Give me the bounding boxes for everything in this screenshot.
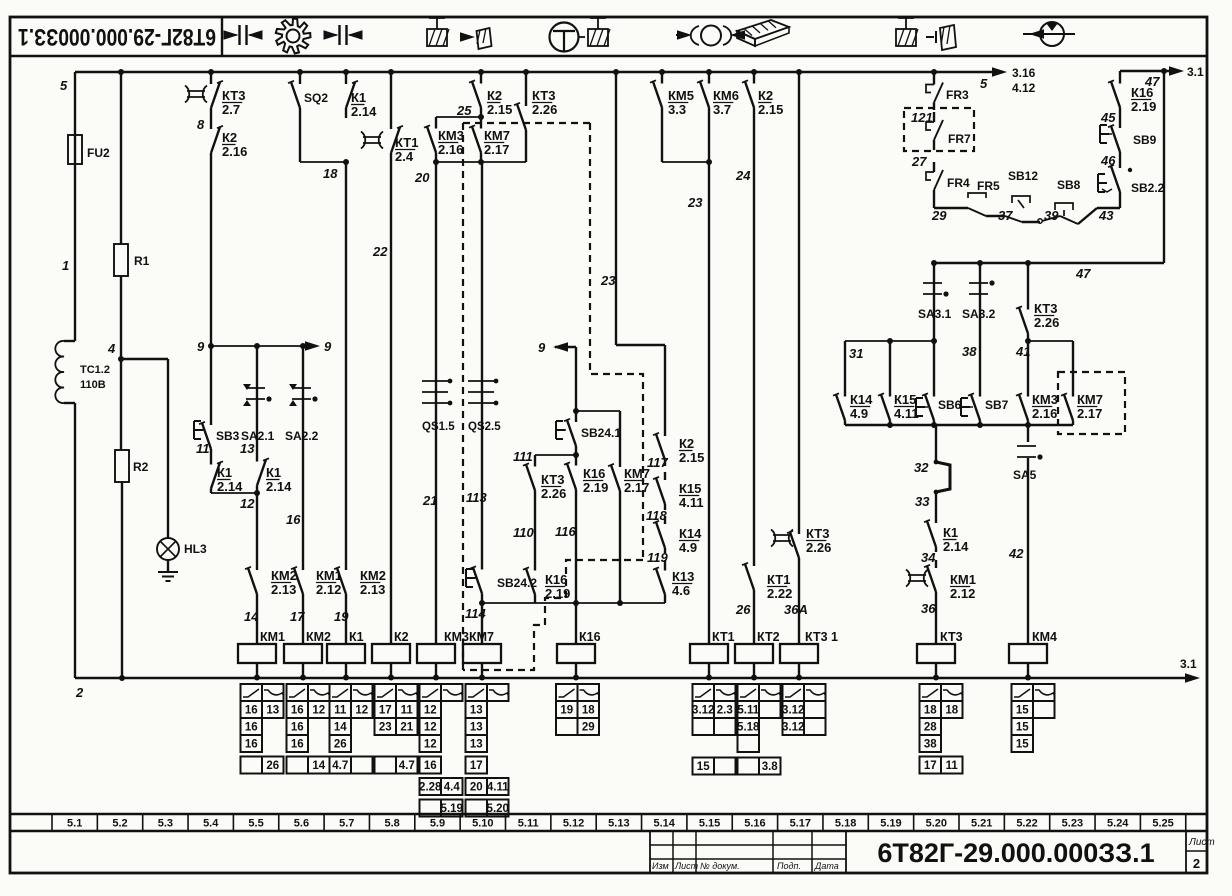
coil KM2: [284, 630, 331, 681]
wire 43 to SB2.2: [1097, 198, 1120, 208]
svg-text:КМ3: КМ3: [444, 630, 469, 644]
dashed link vertical left: [462, 123, 464, 670]
svg-text:SA5: SA5: [1013, 468, 1037, 482]
table under K16: [556, 684, 600, 735]
label KT3 2.26 (111): [541, 472, 566, 501]
svg-text:17: 17: [470, 760, 483, 772]
svg-text:2.17: 2.17: [1077, 406, 1102, 421]
contact KM1 2.12 (KM2 column): [291, 560, 303, 602]
wire K2 2.16 to node 9: [210, 162, 212, 346]
svg-text:21: 21: [400, 722, 413, 734]
svg-text:45: 45: [1100, 110, 1116, 125]
svg-text:Подп.: Подп.: [777, 861, 801, 871]
svg-text:КМ2: КМ2: [306, 630, 331, 644]
label K16 2.19 top: [1131, 85, 1156, 114]
contact KT3 2.26 (36A): [771, 524, 799, 566]
svg-text:3.3: 3.3: [668, 102, 686, 117]
contact K13 4.6: [653, 560, 665, 603]
svg-text:12: 12: [355, 705, 368, 717]
svg-text:16: 16: [291, 722, 304, 734]
svg-text:11: 11: [334, 705, 347, 717]
svg-text:КМ7: КМ7: [469, 630, 494, 644]
wire R1 column top: [118, 69, 124, 244]
svg-text:5.18: 5.18: [835, 818, 856, 830]
svg-text:2.16: 2.16: [222, 144, 247, 159]
svg-text:43: 43: [1098, 208, 1114, 223]
node 23 label a: [600, 273, 616, 288]
contact K1 2.14 (SA2.1 branch): [257, 452, 269, 493]
svg-text:5.16: 5.16: [744, 818, 765, 830]
svg-text:К1: К1: [351, 90, 366, 105]
title block list cell: [1186, 831, 1215, 873]
svg-text:46: 46: [1100, 153, 1116, 168]
svg-text:27: 27: [911, 154, 927, 169]
node 5 label left: [60, 78, 68, 93]
svg-text:11: 11: [196, 441, 210, 456]
disconnect QS2.5: [468, 370, 501, 433]
label K16 2.19 main: [583, 466, 608, 495]
contact K1 2.14 (33): [924, 516, 936, 552]
switch SA3.1: [918, 263, 952, 390]
svg-text:11: 11: [946, 760, 959, 772]
svg-text:18: 18: [323, 166, 338, 181]
label K2 2.15 chain: [679, 436, 704, 465]
node 2 label: [75, 685, 84, 700]
svg-text:SA3.2: SA3.2: [962, 307, 996, 321]
svg-text:КМ7: КМ7: [484, 128, 510, 143]
svg-text:25: 25: [456, 103, 472, 118]
contact KT1 2.4: [361, 118, 403, 162]
svg-text:16: 16: [286, 512, 301, 527]
label K14 4.9 (31): [850, 392, 873, 421]
pushbutton SB24.1: [556, 411, 621, 455]
svg-text:5.6: 5.6: [294, 818, 309, 830]
wire SQ2 top: [297, 69, 303, 75]
svg-text:3.16: 3.16: [1012, 66, 1036, 80]
svg-text:QS1.5: QS1.5: [422, 421, 455, 433]
svg-text:5.11: 5.11: [737, 705, 759, 717]
label KT3 2.26 (47): [1034, 301, 1059, 330]
svg-text:38: 38: [924, 739, 937, 751]
pushbutton SB6: [916, 390, 962, 425]
svg-text:КМ2: КМ2: [360, 568, 386, 583]
node 29 label: [931, 208, 947, 223]
node 119 label: [647, 550, 668, 565]
svg-text:8: 8: [197, 117, 205, 132]
label KM7 2.17 b: [624, 466, 650, 495]
svg-text:13: 13: [240, 441, 255, 456]
svg-text:24: 24: [735, 168, 751, 183]
label K16 2.19 (110): [545, 572, 570, 601]
svg-text:QS2.5: QS2.5: [468, 421, 501, 433]
svg-text:FR7: FR7: [948, 132, 971, 146]
coil K16: [557, 630, 601, 681]
node 16 label: [286, 512, 301, 527]
table under KM4: [1012, 684, 1056, 752]
svg-text:К16: К16: [583, 466, 605, 481]
svg-text:5.2: 5.2: [112, 818, 127, 830]
wire transformer to bottom bus: [74, 403, 76, 678]
svg-text:2.15: 2.15: [679, 450, 704, 465]
label K14 4.9: [679, 526, 702, 555]
node 32 label: [914, 460, 929, 475]
wire node18 down: [345, 162, 347, 560]
svg-text:КМ7: КМ7: [1077, 392, 1103, 407]
svg-text:114: 114: [465, 606, 486, 621]
svg-text:19: 19: [560, 705, 573, 717]
svg-text:2: 2: [1193, 856, 1200, 871]
arrow 3.1 bottom: [1180, 657, 1200, 683]
svg-text:12: 12: [312, 705, 325, 717]
wire node12 down: [256, 493, 258, 560]
svg-text:15: 15: [1016, 705, 1029, 717]
node 47 label: [1075, 266, 1091, 281]
svg-text:12: 12: [424, 739, 437, 751]
svg-text:116: 116: [555, 524, 576, 539]
node 121 label: [911, 110, 933, 125]
svg-text:2.3: 2.3: [717, 705, 733, 717]
label KT1 2.4: [395, 135, 418, 164]
table under KM2: [287, 684, 331, 774]
coil KM1: [238, 630, 285, 681]
wire to KM7 coil: [481, 603, 483, 630]
svg-text:Лист: Лист: [1188, 837, 1215, 848]
svg-text:5.24: 5.24: [1107, 818, 1129, 830]
svg-text:2.7: 2.7: [222, 102, 240, 117]
table under K1: [330, 684, 374, 774]
node 111: [513, 449, 579, 464]
svg-text:К1: К1: [349, 630, 364, 644]
icon: workpiece block: [737, 20, 789, 46]
resistor R2: [115, 450, 149, 482]
contact FR5: [968, 179, 1005, 216]
wire top bus right segment: [1120, 68, 1180, 74]
svg-text:36: 36: [921, 601, 936, 616]
label KM6 3.7: [713, 88, 739, 117]
contact K1 2.14 (SB3 branch): [211, 458, 223, 493]
switch SA5: [1013, 446, 1043, 482]
contact K2 2.15 top: [469, 69, 484, 117]
node 42 label: [1008, 546, 1024, 561]
node 12: [240, 490, 260, 511]
svg-text:12: 12: [240, 496, 255, 511]
svg-text:К14: К14: [679, 526, 702, 541]
label KT3 2.26 top: [532, 88, 557, 117]
svg-text:КТ3: КТ3: [532, 88, 555, 103]
svg-text:К15: К15: [894, 392, 916, 407]
node 3.1 label bottom: [0, 0, 1, 1]
arrow node 9 right: [305, 339, 332, 354]
svg-text:5.25: 5.25: [1152, 818, 1173, 830]
svg-text:SB9: SB9: [1133, 133, 1157, 147]
node 9 label left: [197, 339, 205, 354]
svg-text:113: 113: [466, 490, 487, 505]
label K1 2.14 a: [217, 465, 243, 494]
thermal contact FR3: [926, 77, 969, 110]
icon: indexing symbol: [1023, 22, 1075, 46]
svg-text:5.10: 5.10: [472, 818, 493, 830]
wire to KM2 coil: [302, 602, 304, 630]
wire 24 down: [753, 117, 755, 556]
wire FR bottom path: [934, 200, 968, 208]
wire node 47 vertical: [1163, 71, 1165, 263]
wire SQ2 bottom: [300, 118, 346, 162]
node 118 label: [646, 508, 667, 523]
svg-text:КТ1: КТ1: [767, 572, 790, 587]
node KM6 junction: [706, 159, 712, 165]
contact K15 4.11 chain: [653, 472, 665, 510]
svg-text:3.7: 3.7: [713, 102, 731, 117]
label KM3 2.16 top: [438, 128, 464, 157]
jumper 32-33: [934, 460, 950, 495]
wire KM7 column: [481, 162, 483, 370]
svg-text:36А: 36А: [784, 602, 808, 617]
contact KM3 2.16 (41): [1016, 341, 1028, 425]
svg-text:17: 17: [379, 705, 392, 717]
contact K2 2.15 chain: [653, 428, 665, 466]
contact KT3 2.26 (111): [523, 455, 535, 500]
contact KM7 2.17 (K16 col): [608, 411, 620, 498]
switch SA2.2: [285, 346, 319, 560]
svg-text:2.16: 2.16: [1032, 406, 1057, 421]
label K15 4.11 (31): [894, 392, 919, 421]
contact K2 2.16: [211, 118, 223, 162]
svg-text:3.12: 3.12: [782, 705, 804, 717]
node 17 label: [290, 609, 305, 624]
dashed link KM3-KM7 top: [463, 122, 590, 124]
wire to KT3 coil: [935, 598, 937, 630]
contact K16 2.19 main: [564, 455, 576, 498]
svg-text:К1: К1: [217, 465, 232, 480]
svg-text:15: 15: [1016, 739, 1029, 751]
svg-text:16: 16: [291, 739, 304, 751]
svg-text:2.15: 2.15: [487, 102, 512, 117]
node 46 label: [1100, 153, 1116, 168]
coil KM4: [1009, 630, 1057, 681]
svg-text:47: 47: [1144, 74, 1160, 89]
wire to KT2 coil: [753, 598, 755, 630]
pushbutton SB8: [1042, 178, 1097, 224]
svg-text:23: 23: [379, 722, 392, 734]
svg-text:4.11: 4.11: [487, 782, 509, 794]
svg-text:5.1: 5.1: [67, 818, 82, 830]
svg-text:117: 117: [647, 455, 668, 470]
svg-text:5.4: 5.4: [203, 818, 219, 830]
svg-text:FU2: FU2: [87, 146, 110, 160]
svg-text:11: 11: [401, 705, 414, 717]
node 25 rail: [436, 114, 484, 120]
rail 31 bottom: [845, 422, 1073, 428]
coil KM7: [463, 630, 501, 681]
table under KT3: [920, 684, 964, 774]
wire 42: [1027, 458, 1029, 630]
node 34 label: [921, 550, 936, 565]
svg-text:16: 16: [245, 722, 258, 734]
node 39 label: [1044, 208, 1059, 223]
svg-text:22: 22: [372, 244, 388, 259]
svg-text:5.7: 5.7: [339, 818, 354, 830]
label K1 2.14 (33): [943, 525, 969, 554]
wire HL3 to ground: [167, 560, 169, 572]
svg-text:2.13: 2.13: [271, 582, 296, 597]
transformer winding TC1.2: [55, 341, 75, 403]
node 36A label: [784, 602, 808, 617]
svg-text:9: 9: [324, 339, 332, 354]
svg-text:К2: К2: [758, 88, 773, 103]
node SB24.1 top: [573, 408, 620, 414]
svg-text:38: 38: [962, 344, 977, 359]
svg-text:SB24.1: SB24.1: [581, 426, 621, 440]
svg-text:4.6: 4.6: [672, 583, 690, 598]
node 47 rail: [931, 260, 1164, 266]
svg-text:К2: К2: [679, 436, 694, 451]
node 31 label: [849, 346, 863, 361]
label KT3 2.26 (36A): [806, 526, 831, 555]
label KM2 2.13 a: [271, 568, 297, 597]
svg-text:R1: R1: [134, 254, 150, 268]
wire node 4 to HL3: [121, 359, 168, 538]
dashed box FR7: [904, 108, 974, 151]
svg-text:SB3: SB3: [216, 429, 240, 443]
svg-text:КТ2: КТ2: [757, 630, 780, 644]
svg-text:1: 1: [62, 258, 69, 273]
svg-text:КМ6: КМ6: [713, 88, 739, 103]
label K2 2.15 top: [487, 88, 512, 117]
wire to KT3.1 coil: [798, 566, 800, 630]
label KT3 2.7: [222, 88, 245, 117]
wire KT3.1 column top: [796, 69, 802, 524]
wire node 22 down: [390, 162, 392, 630]
node 47 label top: [1144, 74, 1160, 89]
svg-text:SB6: SB6: [938, 398, 962, 412]
svg-text:5: 5: [60, 78, 68, 93]
wire chain from bus: [613, 69, 665, 428]
node 110 label: [513, 525, 534, 540]
svg-text:К14: К14: [850, 392, 873, 407]
label KT1 2.22: [767, 572, 792, 601]
svg-text:5.19: 5.19: [880, 818, 901, 830]
label K15 4.11: [679, 481, 704, 510]
svg-text:КМ4: КМ4: [1032, 630, 1057, 644]
svg-text:17: 17: [924, 760, 937, 772]
icon: arrow to hatched pad 1: [460, 28, 492, 49]
fuse FU2: [68, 135, 110, 164]
label KM1 2.12 a: [316, 568, 342, 597]
svg-text:К16: К16: [579, 630, 601, 644]
table under KT1: [692, 684, 736, 735]
label KM2 2.13 b: [360, 568, 386, 597]
svg-text:2.26: 2.26: [541, 486, 566, 501]
node 38 label: [962, 344, 977, 359]
svg-text:9: 9: [197, 339, 205, 354]
svg-text:31: 31: [849, 346, 863, 361]
svg-text:4.9: 4.9: [850, 406, 868, 421]
dashed link to K16 contact: [463, 560, 643, 670]
node 14 label: [244, 609, 259, 624]
svg-text:5.14: 5.14: [654, 818, 676, 830]
node 26 label: [735, 602, 751, 617]
svg-text:SB12: SB12: [1008, 169, 1038, 183]
contact KM7 2.17 (41): [1061, 341, 1073, 425]
svg-text:18: 18: [924, 705, 937, 717]
node 20 rail: [433, 159, 526, 165]
node 114: [465, 600, 486, 621]
svg-text:5.22: 5.22: [1016, 818, 1037, 830]
svg-text:16: 16: [291, 705, 304, 717]
node 45 label: [1100, 110, 1116, 125]
svg-text:5.15: 5.15: [699, 818, 720, 830]
table under KM3: [419, 684, 463, 817]
svg-text:SA3.1: SA3.1: [918, 307, 952, 321]
pushbutton SB9: [1100, 118, 1157, 160]
svg-text:2.15: 2.15: [758, 102, 783, 117]
svg-text:33: 33: [915, 494, 930, 509]
svg-text:29: 29: [582, 722, 595, 734]
label K2 2.15 (24): [758, 88, 783, 117]
svg-text:2.14: 2.14: [351, 104, 377, 119]
pushbutton SB7: [961, 390, 1009, 425]
node 8 label: [197, 117, 205, 132]
svg-text:13: 13: [470, 739, 483, 751]
icon: grinding wheel with holder 2: [588, 18, 610, 46]
wire R2 to bottom bus: [119, 482, 125, 681]
coil KT2: [735, 630, 780, 681]
svg-text:2.12: 2.12: [316, 582, 341, 597]
svg-text:К16: К16: [545, 572, 567, 587]
contact KT1 2.22: [742, 556, 754, 598]
wire bottom bus: [75, 677, 1196, 680]
switch SA2.1: [241, 346, 275, 452]
icon: gap symbol 2: [324, 25, 363, 45]
coil KT1: [690, 630, 735, 681]
wire QS2.5 down: [481, 415, 483, 558]
svg-text:6Т82Г-29.000.000ЗЗ.1: 6Т82Г-29.000.000ЗЗ.1: [877, 838, 1154, 868]
svg-text:2.12: 2.12: [950, 586, 975, 601]
svg-text:12: 12: [424, 722, 437, 734]
svg-text:КТ3 1: КТ3 1: [805, 630, 838, 644]
contact KT3 2.26 top: [514, 69, 529, 162]
contact KM6 3.7: [697, 69, 712, 117]
dashed link right branch: [590, 123, 643, 560]
svg-text:№ докум.: № докум.: [700, 861, 740, 871]
svg-text:4.4: 4.4: [444, 782, 461, 794]
svg-text:КТ3: КТ3: [1034, 301, 1057, 316]
svg-text:12: 12: [424, 705, 437, 717]
svg-text:SB2.2: SB2.2: [1131, 181, 1165, 195]
table under KM7: [466, 684, 510, 817]
svg-text:4.7: 4.7: [399, 760, 415, 772]
sheet zone strip: [10, 814, 1207, 831]
svg-text:29: 29: [931, 208, 947, 223]
svg-text:5.5: 5.5: [248, 818, 263, 830]
contact KM1 2.12 (34): [906, 560, 936, 598]
wire SB6 down: [935, 425, 937, 462]
svg-text:2.26: 2.26: [806, 540, 831, 555]
dashed box KM7 interlock: [1058, 372, 1125, 434]
contact K14 4.9 (31): [833, 341, 845, 425]
switch SA3.2: [962, 263, 996, 390]
svg-text:2.17: 2.17: [484, 142, 509, 157]
coil KM3: [417, 630, 469, 681]
svg-text:5.21: 5.21: [971, 818, 992, 830]
svg-text:4.11: 4.11: [894, 406, 919, 421]
svg-text:23: 23: [687, 195, 703, 210]
label KM1 2.12 (34): [950, 572, 976, 601]
contact K15 4.11 (31): [878, 341, 890, 425]
node 41 junction: [1025, 338, 1073, 344]
svg-text:R2: R2: [133, 460, 149, 474]
node FR3 junction: [931, 69, 937, 77]
